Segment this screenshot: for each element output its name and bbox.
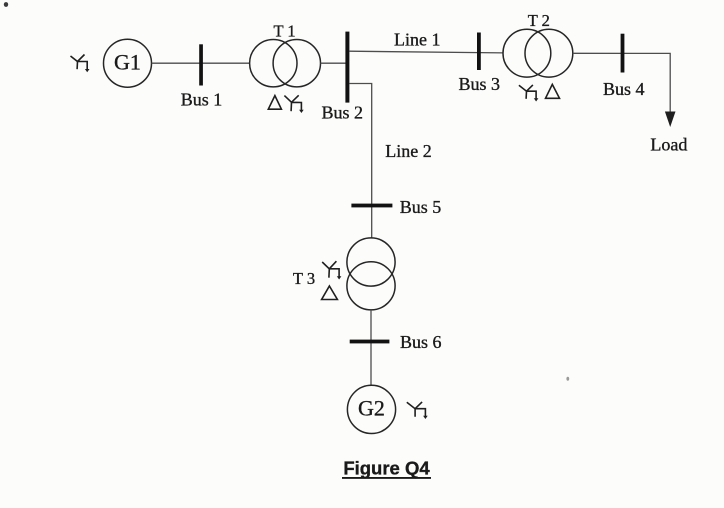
scan speck top-left bbox=[4, 2, 8, 7]
faint scan speck bbox=[566, 377, 569, 381]
label Bus 2 bbox=[321, 103, 363, 123]
transformer T1 (two overlapping circles) bbox=[250, 40, 321, 87]
label Bus 4 bbox=[603, 79, 645, 99]
label Line 2 bbox=[385, 141, 432, 161]
label Bus 6 bbox=[400, 332, 442, 352]
load arrowhead bbox=[665, 112, 676, 128]
svg-text:Bus 2: Bus 2 bbox=[321, 103, 363, 123]
label Load bbox=[650, 134, 687, 154]
svg-text:Bus 1: Bus 1 bbox=[181, 89, 223, 109]
svg-text:Load: Load bbox=[650, 134, 687, 154]
svg-text:Line 2: Line 2 bbox=[385, 141, 432, 161]
bus bar Bus 1 bbox=[199, 44, 203, 85]
generator G1 circle bbox=[104, 39, 152, 87]
label Bus 3 bbox=[458, 74, 500, 94]
label T 2 bbox=[528, 11, 550, 30]
wire G1 to T1 through Bus 1 bbox=[152, 62, 250, 64]
label Bus 5 bbox=[400, 197, 442, 217]
svg-text:T 1: T 1 bbox=[274, 22, 296, 41]
label Bus 1 bbox=[181, 89, 223, 109]
bus bar Bus 6 bbox=[350, 340, 390, 344]
svg-text:Bus 6: Bus 6 bbox=[400, 332, 442, 352]
svg-text:G2: G2 bbox=[358, 396, 385, 421]
delta symbol of T3 bbox=[322, 286, 338, 300]
bus bar Bus 2 bbox=[345, 32, 349, 103]
svg-text:Bus 3: Bus 3 bbox=[458, 74, 500, 94]
grounded-wye symbol of T3 bbox=[322, 261, 341, 279]
wire Line 1 from Bus 2 to T2 through Bus 3 bbox=[349, 51, 503, 53]
grounded-wye symbol of T1 bbox=[284, 95, 303, 113]
svg-text:Bus 4: Bus 4 bbox=[603, 79, 645, 99]
label T 1 bbox=[274, 22, 296, 41]
label G2 bbox=[358, 396, 385, 421]
svg-text:T 2: T 2 bbox=[528, 11, 550, 30]
bus bar Bus 5 bbox=[351, 204, 392, 208]
wire T3 to G2 through Bus 6 bbox=[370, 310, 372, 386]
svg-text:Line 1: Line 1 bbox=[394, 30, 441, 50]
grounded-wye symbol of G2 bbox=[407, 402, 428, 419]
label Line 1 bbox=[394, 30, 441, 50]
grounded-wye symbol of G1 bbox=[71, 55, 90, 73]
wire T2 to load corner through Bus 4 bbox=[573, 53, 670, 112]
bus bar Bus 3 bbox=[477, 33, 481, 71]
bus bar Bus 4 bbox=[621, 34, 625, 73]
delta symbol of T2 bbox=[546, 84, 560, 98]
wire branch from Bus 2 to Line 2 corner bbox=[349, 84, 371, 239]
transformer T3 (two overlapping circles) bbox=[347, 238, 395, 310]
wire T1 to Bus 2 bbox=[321, 62, 348, 64]
svg-text:G1: G1 bbox=[114, 49, 141, 74]
transformer T2 (two overlapping circles) bbox=[503, 29, 573, 77]
label T 3 bbox=[293, 269, 315, 288]
label G1 bbox=[114, 49, 141, 74]
generator G2 circle bbox=[347, 385, 395, 433]
grounded-wye symbol of T2 bbox=[519, 85, 539, 102]
svg-text:Bus 5: Bus 5 bbox=[400, 197, 442, 217]
svg-text:T 3: T 3 bbox=[293, 269, 315, 288]
delta symbol of T1 bbox=[268, 96, 281, 110]
svg-text:Figure Q4: Figure Q4 bbox=[343, 458, 430, 479]
caption Figure Q4 bbox=[342, 458, 431, 479]
